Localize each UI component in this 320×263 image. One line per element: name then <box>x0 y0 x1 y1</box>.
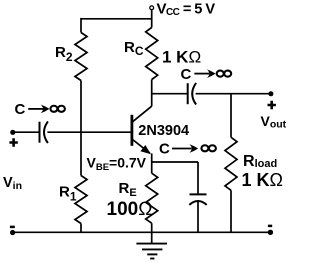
ground stub <box>151 232 153 243</box>
svg-text:VCC = 5 V: VCC = 5 V <box>157 1 216 19</box>
wire VCC stub <box>151 10 153 28</box>
capacitor C bypass curved plate <box>189 201 206 205</box>
arrow of bypass C label <box>172 148 192 150</box>
wire collector vertical <box>151 80 153 107</box>
transistor Q1 emitter arrowhead <box>140 145 150 154</box>
resistor R1 <box>75 176 87 224</box>
arrow of output C label <box>194 73 209 75</box>
svg-text:C: C <box>159 141 170 158</box>
node Vout terminal dot <box>268 91 273 96</box>
wire input lead <box>13 131 40 133</box>
wire emitter bypass branch <box>152 161 198 163</box>
arrow of input C label <box>28 108 43 110</box>
plus sign at input <box>9 138 17 146</box>
transistor Q1 emitter lead <box>132 139 150 153</box>
wire top rail <box>81 18 152 20</box>
wire bypass cap top lead <box>197 162 199 194</box>
node VCC terminal circle <box>150 6 154 10</box>
svg-text:C: C <box>181 66 192 83</box>
capacitor C bypass top plate <box>190 193 207 195</box>
wire collector output tap <box>152 93 188 95</box>
ground bar 4 <box>150 258 154 260</box>
wire Rload bottom lead <box>230 190 232 232</box>
resistor Rload <box>225 137 237 190</box>
capacitor C input left plate <box>39 122 41 143</box>
wire output to Vout terminal <box>196 93 271 95</box>
wire emitter vertical <box>151 153 153 173</box>
ground bar 2 <box>142 248 162 250</box>
wire base node vertical <box>80 81 82 176</box>
svg-text:2N3904: 2N3904 <box>138 123 189 139</box>
resistor R2 <box>75 33 87 81</box>
minus sign at bottom-left <box>10 226 15 229</box>
svg-text:VBE=0.7V: VBE=0.7V <box>87 154 147 173</box>
svg-text:1 KΩ: 1 KΩ <box>162 48 201 67</box>
wire Rload top lead <box>230 94 232 138</box>
infinity of bypass C label <box>201 145 216 151</box>
wire RE bottom lead <box>151 223 153 232</box>
transistor Q1 base bar <box>130 115 133 146</box>
plus sign at output <box>268 101 276 109</box>
node input terminal dot <box>10 130 15 135</box>
node bottom-left terminal dot <box>10 230 15 235</box>
capacitor C output left plate <box>187 83 189 104</box>
wire R1 bottom lead <box>80 224 82 233</box>
minus sign at bottom-right <box>268 225 272 228</box>
infinity of output C label <box>217 71 232 77</box>
transistor Q1 collector lead <box>132 106 152 122</box>
svg-text:100Ω: 100Ω <box>107 199 153 220</box>
wire bypass cap bottom lead <box>197 201 199 232</box>
capacitor C output curved plate <box>192 83 196 105</box>
infinity of input C label <box>50 106 65 112</box>
ground bar 1 <box>136 243 167 245</box>
wire R2 top lead <box>80 18 82 33</box>
ground bar 3 <box>147 253 157 255</box>
node bottom-right terminal dot <box>268 230 273 235</box>
wire base <box>47 131 131 133</box>
resistor RC <box>146 28 158 80</box>
capacitor C input curved plate <box>44 121 48 143</box>
svg-text:1 KΩ: 1 KΩ <box>242 170 283 190</box>
wire bottom rail <box>13 231 270 233</box>
svg-text:C: C <box>15 101 26 118</box>
resistor RE <box>146 173 158 223</box>
